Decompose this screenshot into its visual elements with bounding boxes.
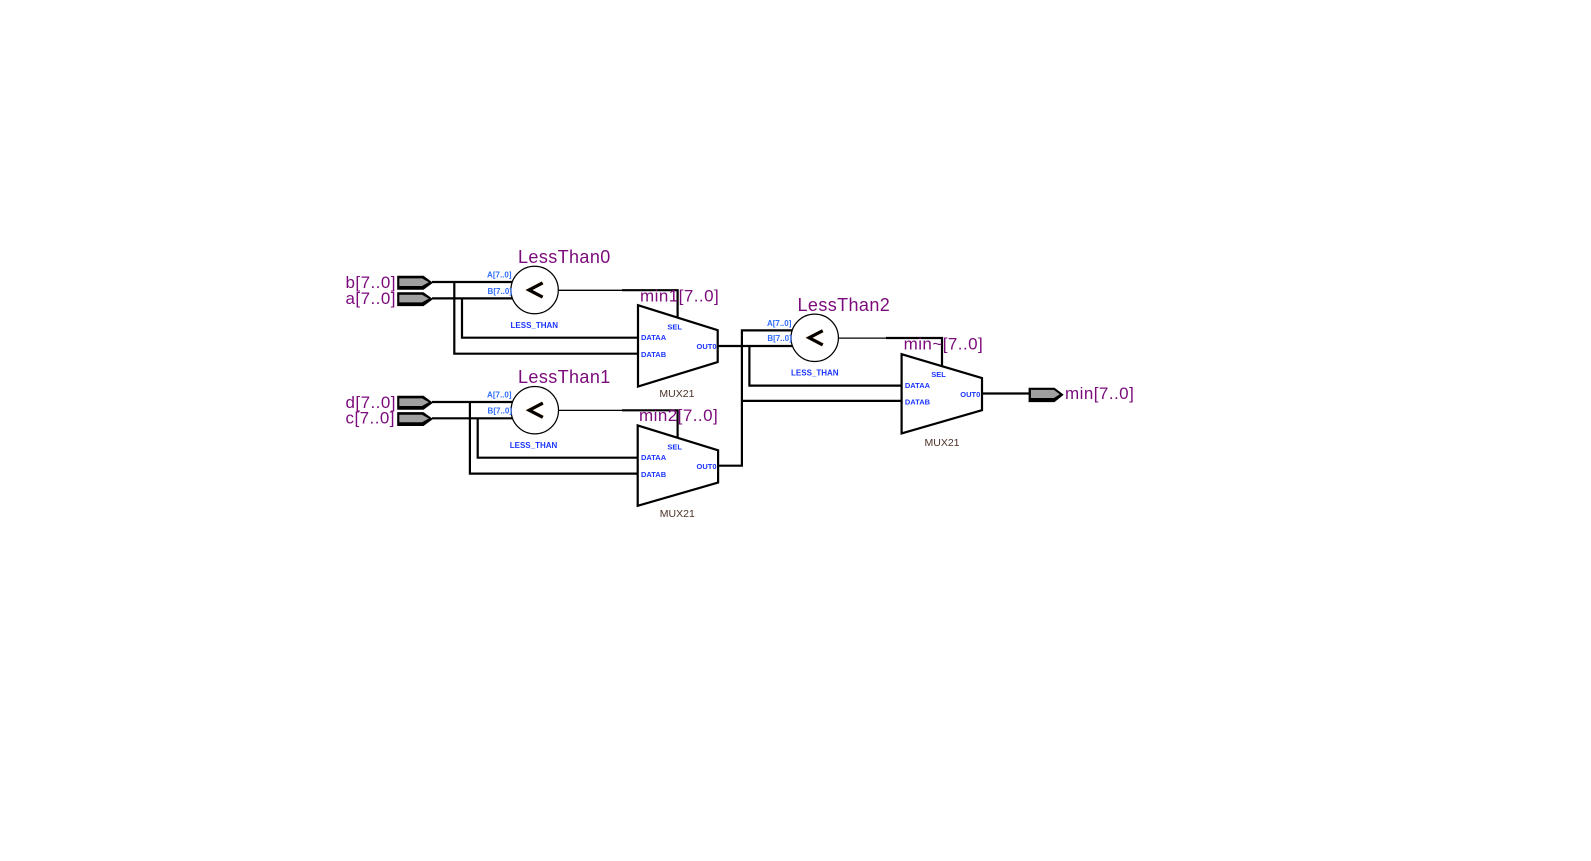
wire LessThan1 output to MUX1 SEL xyxy=(622,410,678,438)
svg-text:LESS_THAN: LESS_THAN xyxy=(510,441,558,450)
svg-text:A[7..0]: A[7..0] xyxy=(767,319,792,328)
svg-text:DATAA: DATAA xyxy=(905,381,931,390)
wire LessThan2 output thin xyxy=(838,337,886,339)
wire min1 from MUX0 OUT0 to LessThan2 B xyxy=(718,345,793,347)
wire LessThan0 output to MUX0 SEL xyxy=(622,290,678,318)
wire d branch to MUX1 DATAB xyxy=(470,402,638,474)
wire c to LessThan1 B xyxy=(432,417,513,419)
comparator LessThan1 xyxy=(511,387,558,434)
svg-text:c[7..0]: c[7..0] xyxy=(346,409,395,428)
comparator LessThan2 xyxy=(791,314,838,361)
svg-text:LessThan1: LessThan1 xyxy=(518,367,611,387)
svg-text:LessThan2: LessThan2 xyxy=(798,295,891,315)
input pin a[7..0] xyxy=(397,292,433,306)
svg-text:OUT0: OUT0 xyxy=(960,390,980,399)
svg-text:B[7..0]: B[7..0] xyxy=(488,407,513,416)
input pin b[7..0] xyxy=(397,276,433,290)
wire MUX2 OUT0 to output pin xyxy=(982,392,1030,394)
svg-text:A[7..0]: A[7..0] xyxy=(487,390,512,399)
svg-text:A[7..0]: A[7..0] xyxy=(487,270,512,279)
wire LessThan1 output thin xyxy=(559,409,623,411)
mux MUX1 xyxy=(638,425,718,505)
wire min2 branch to MUX2 DATAB xyxy=(742,400,902,402)
svg-text:SEL: SEL xyxy=(931,370,946,379)
svg-text:SEL: SEL xyxy=(667,443,682,452)
svg-text:B[7..0]: B[7..0] xyxy=(488,287,513,296)
wire c branch to MUX1 DATAA xyxy=(478,418,638,457)
svg-text:DATAA: DATAA xyxy=(641,333,667,342)
svg-text:DATAB: DATAB xyxy=(905,398,931,407)
wire LessThan0 output thin xyxy=(558,289,622,291)
wire a branch to MUX0 DATAA xyxy=(462,298,638,337)
wire a to LessThan0 B xyxy=(432,297,512,299)
output pin min[7..0] xyxy=(1029,388,1064,402)
svg-text:DATAB: DATAB xyxy=(641,350,667,359)
svg-text:min~[7..0]: min~[7..0] xyxy=(904,335,984,354)
svg-text:LESS_THAN: LESS_THAN xyxy=(511,321,559,330)
svg-text:LESS_THAN: LESS_THAN xyxy=(791,369,839,378)
svg-text:min2[7..0]: min2[7..0] xyxy=(639,406,718,425)
svg-text:OUT0: OUT0 xyxy=(696,342,716,351)
svg-text:SEL: SEL xyxy=(667,322,682,331)
input pin c[7..0] xyxy=(397,412,433,426)
svg-text:LessThan0: LessThan0 xyxy=(518,247,611,267)
svg-text:MUX21: MUX21 xyxy=(660,508,695,520)
wire b branch to MUX0 DATAB xyxy=(454,282,638,354)
wire d to LessThan1 A xyxy=(432,401,513,403)
svg-text:OUT0: OUT0 xyxy=(696,462,716,471)
svg-text:min1[7..0]: min1[7..0] xyxy=(640,287,719,306)
svg-text:DATAB: DATAB xyxy=(641,470,667,479)
svg-text:B[7..0]: B[7..0] xyxy=(767,334,792,343)
wire b to LessThan0 A xyxy=(432,281,512,283)
mux MUX2 xyxy=(902,354,982,433)
mux MUX0 xyxy=(638,305,718,386)
wire min1 branch to MUX2 DATAA xyxy=(749,346,901,386)
svg-text:MUX21: MUX21 xyxy=(659,388,694,400)
svg-text:DATAA: DATAA xyxy=(641,453,667,462)
svg-text:min[7..0]: min[7..0] xyxy=(1065,384,1134,403)
svg-text:a[7..0]: a[7..0] xyxy=(346,289,396,308)
wire min2 from MUX1 OUT0 to LessThan2 A xyxy=(718,330,792,465)
wire LessThan2 output to MUX2 SEL xyxy=(886,338,942,367)
input pin d[7..0] xyxy=(397,396,433,410)
svg-text:MUX21: MUX21 xyxy=(924,437,959,449)
comparator LessThan0 xyxy=(511,266,558,313)
